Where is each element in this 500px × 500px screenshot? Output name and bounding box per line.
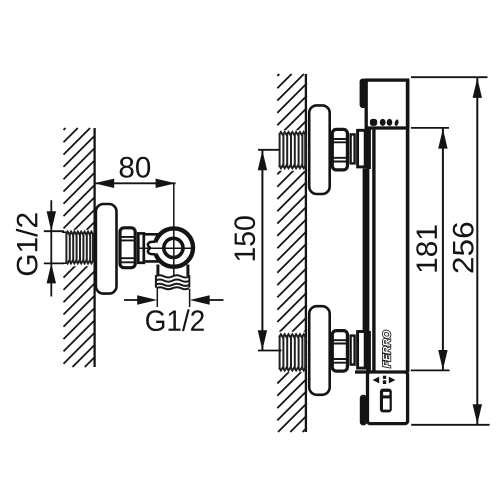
wall (right, hatched) — [277, 74, 307, 432]
dim 256: dimension line + arrows — [473, 78, 482, 425]
temperature dots — [370, 119, 399, 126]
threaded pipe top (right view) — [279, 132, 306, 168]
pipe hole edges — [62, 232, 67, 263]
centerline horizontal — [140, 247, 193, 249]
dim 150: extension lines — [258, 150, 282, 351]
dim 181: extension lines — [411, 128, 450, 371]
escutcheon (left view) — [96, 204, 117, 294]
escutcheon top (right view) — [309, 105, 330, 194]
dim 181: text (rotated) — [416, 226, 437, 272]
elbow body below ball — [158, 265, 188, 277]
mixer body: right edge — [406, 80, 410, 372]
inlet tube bottom — [358, 332, 366, 369]
dim 80: dimension line — [94, 179, 175, 188]
dim 256: extension lines — [411, 77, 490, 425]
mixer body: left edge top segment — [366, 129, 371, 169]
inlet tube top — [358, 130, 366, 167]
wall face line (left wall) — [93, 128, 95, 367]
inner circle — [164, 238, 183, 257]
centerline vertical / extension of 80 — [173, 184, 175, 277]
washer (left view) — [138, 233, 144, 262]
dim G1/2 bottom: dimension line + arrows — [124, 295, 224, 304]
dim 80: text — [120, 157, 150, 178]
swivel bracket — [143, 234, 159, 261]
dim 150: dimension line + arrows — [258, 150, 267, 350]
mixer body: left edge bottom segment — [366, 331, 371, 372]
spacer bottom — [351, 336, 355, 365]
threaded pipe G1/2 (left view) — [66, 232, 93, 264]
ball joint circle (left view) — [155, 228, 193, 266]
dim G1/2 left: text (rotated) — [16, 213, 38, 275]
knob bar (black bar bottom) — [360, 395, 367, 426]
mixer body: inner line — [372, 129, 375, 372]
outlet thread G1/2 (left view) — [155, 275, 189, 289]
wall face line (right wall) — [305, 74, 307, 432]
control box top ledge — [355, 370, 368, 373]
dim 150: text (rotated) — [234, 216, 255, 260]
clamp — [148, 242, 155, 254]
mixer head box — [366, 80, 408, 128]
slider — [380, 389, 392, 413]
threaded pipe bottom (right view) — [279, 334, 306, 370]
spacer top — [351, 134, 355, 163]
wall (left, hatched) — [64, 128, 95, 367]
mixer body: rear band between inlets — [363, 169, 370, 332]
arrow left (38°C marker) — [373, 377, 380, 384]
hex nut (left view) — [120, 228, 137, 268]
tiny 38 label — [383, 376, 386, 384]
shower hose stub (black bar top) — [360, 79, 367, 109]
control box — [368, 372, 408, 424]
hex nut bottom (right view) — [332, 331, 349, 372]
FERRO logo (rotated) — [383, 330, 391, 367]
hex nut top (right view) — [332, 129, 349, 170]
dim G1/2 left: dimension line + arrows + ticks — [44, 200, 64, 296]
ring gap — [151, 243, 159, 254]
dim G1/2 bottom: extension lines — [157, 289, 189, 307]
escutcheon bottom (right view) — [309, 306, 330, 395]
dim 256: text (rotated) — [453, 223, 474, 273]
dim 181: dimension line + arrows — [438, 128, 447, 370]
dim G1/2 bottom: text — [146, 309, 204, 331]
arrow right (38°C marker) — [389, 377, 396, 384]
